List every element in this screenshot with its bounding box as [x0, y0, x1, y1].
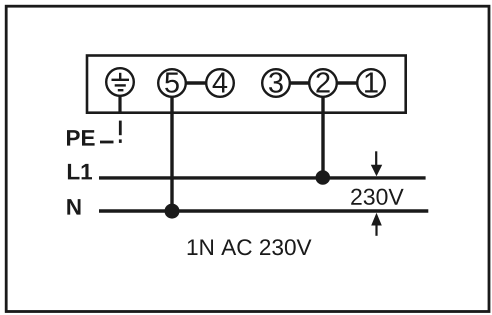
label N	[67, 199, 80, 215]
pin number label 3	[269, 72, 283, 93]
earth symbol inside PE terminal	[112, 73, 130, 90]
wire terminal 2 to terminal 1	[337, 81, 358, 84]
terminal 4	[206, 69, 234, 97]
wire terminal 2 down to L1	[321, 96, 324, 178]
PE dashed lead below box (dash)	[119, 121, 122, 136]
terminal 1	[357, 69, 385, 97]
terminal block box	[87, 56, 406, 113]
pin number label 5	[165, 73, 179, 93]
junction dot on L1	[316, 170, 331, 185]
terminal 2	[309, 69, 337, 97]
dimension arrow down to L1	[371, 151, 382, 176]
PE dashed lead below box (dot)	[119, 139, 122, 143]
wire terminal 5 down to N	[170, 96, 173, 211]
pin number label 2	[316, 72, 329, 92]
label PE	[67, 130, 95, 146]
label L1	[68, 164, 92, 180]
line N	[99, 209, 428, 212]
terminal 3	[262, 69, 290, 97]
pin number label 4	[213, 73, 228, 93]
wire stub from PE terminal to box edge	[118, 96, 121, 113]
terminal 5	[158, 69, 186, 97]
terminal PE (earth) circle	[106, 68, 134, 96]
label 1N AC 230V	[188, 239, 312, 255]
dimension arrow up to N	[371, 213, 382, 236]
PE label dash	[100, 141, 114, 144]
wire terminal 3 to terminal 2	[290, 81, 310, 84]
junction dot on N	[165, 204, 180, 219]
label 230V	[351, 189, 403, 205]
wire terminal 5 to terminal 4	[186, 81, 207, 84]
pin number label 1	[365, 73, 378, 93]
line L1	[99, 176, 426, 179]
